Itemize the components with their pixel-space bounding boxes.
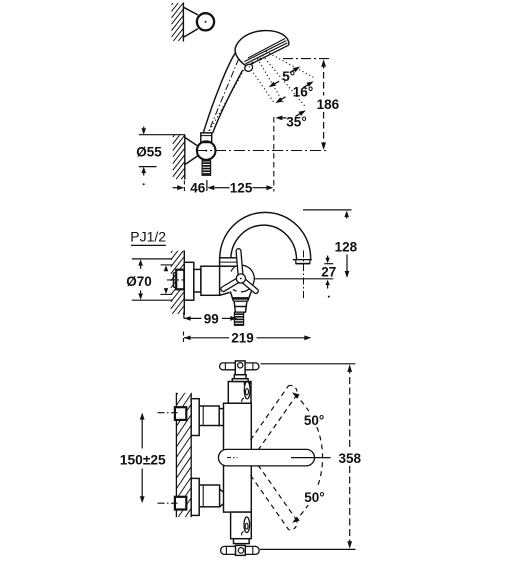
dim 150 line <box>141 415 143 449</box>
tee handle bottom bar <box>221 546 259 554</box>
wall line (bracket top view) <box>182 3 184 42</box>
tee handle top bar <box>220 363 259 370</box>
svg-text:99: 99 <box>204 311 219 326</box>
supply hex nut <box>176 270 184 290</box>
lower cone <box>234 301 247 312</box>
cartridge bottom <box>231 512 252 539</box>
spray ray 1 (5deg leg) <box>266 51 314 77</box>
union cylinder <box>194 269 201 292</box>
handle inner edge <box>213 70 243 133</box>
svg-text:16°: 16° <box>293 85 313 100</box>
swivel spout dashed down <box>251 475 289 529</box>
holder circle side view <box>197 141 216 160</box>
dia70 inner bottom line <box>161 293 173 295</box>
supply hex bottom <box>175 497 186 510</box>
escutcheon bottom <box>191 478 199 515</box>
tee knob top <box>235 361 245 375</box>
arrow 150 top <box>140 413 145 420</box>
arrow 186 bottom <box>321 143 326 151</box>
svg-text:219: 219 <box>231 331 254 346</box>
svg-text:125: 125 <box>230 181 253 196</box>
wall line (holder side view) <box>184 135 186 180</box>
arc arrow 5deg upper <box>293 67 300 73</box>
dim dia70 bottom line <box>132 299 172 301</box>
arrow 186 top <box>321 59 326 66</box>
arrow dia70 top <box>138 259 143 266</box>
arrow 150 bottom <box>140 496 145 503</box>
ext line spout top <box>303 209 352 211</box>
dim 219 right <box>257 337 306 339</box>
bracket cone top view <box>183 7 198 37</box>
supply centerline <box>167 279 198 281</box>
dim line 186 <box>323 62 325 96</box>
arrow 358 top <box>347 364 352 372</box>
supply cl bottom <box>158 502 178 504</box>
spout outer arc <box>220 212 311 258</box>
rotation arrow bottom <box>292 517 300 523</box>
dim 99 right <box>222 317 231 319</box>
svg-text:128: 128 <box>335 239 358 254</box>
arrow dia70 top inner <box>164 265 168 271</box>
handle hub <box>236 274 245 283</box>
svg-text:PJ1/2: PJ1/2 <box>130 229 166 245</box>
wall flange (middle) <box>184 262 194 300</box>
dim 99 <box>183 312 185 319</box>
handle centerline <box>208 59 239 134</box>
arrow dia70 bottom inner <box>164 288 168 294</box>
spray ray 3 (35deg leg) <box>249 66 275 103</box>
dot below dia55 <box>143 183 145 185</box>
hang hook knob <box>243 63 253 73</box>
handle clamp <box>201 133 212 143</box>
spray ray 2 (16deg leg) <box>262 55 305 107</box>
union nut bottom <box>199 485 219 507</box>
bracket lines side view <box>185 137 198 164</box>
supply pipe <box>174 273 185 288</box>
wall right line (bottom) <box>190 393 192 517</box>
label 50 bottom <box>303 490 328 505</box>
dim line dia55 bottom <box>139 166 157 168</box>
label 358 <box>337 451 364 465</box>
handle outer edge <box>203 53 235 134</box>
valve centerline <box>254 278 333 280</box>
svg-text:50°: 50° <box>304 490 324 505</box>
supply cl top <box>158 412 178 414</box>
dim 125 right <box>253 187 269 189</box>
rotation arc <box>294 394 308 411</box>
dim line 358 <box>349 367 351 451</box>
inlet elbow bottom <box>220 489 228 507</box>
outlet thread <box>234 312 243 325</box>
ext line 358 top <box>261 363 356 365</box>
dim 128 line <box>346 255 348 272</box>
arc arrow 16deg upper <box>306 81 313 87</box>
tee knob bottom <box>236 545 246 555</box>
shower head spray face <box>247 45 289 66</box>
svg-text:46: 46 <box>190 181 206 196</box>
escutcheon top <box>191 399 199 436</box>
cartridge detail bottom <box>244 517 250 533</box>
dim 27 top tick <box>327 256 329 260</box>
flange top <box>232 379 248 382</box>
svg-text:50°: 50° <box>304 413 324 428</box>
dim dia70 top line <box>132 258 172 260</box>
spout base box <box>220 258 241 266</box>
arrow 358 bottom <box>347 541 352 549</box>
supply hex top <box>175 407 186 420</box>
shower head dome <box>235 31 289 67</box>
lower bell <box>230 291 251 301</box>
housing detail top <box>244 382 250 399</box>
rotation arrow top <box>292 392 300 398</box>
arc arrow 35deg upper <box>299 110 306 116</box>
svg-text:35°: 35° <box>286 115 306 130</box>
hose cone <box>202 160 210 162</box>
svg-text:358: 358 <box>339 451 362 466</box>
valve body (middle) <box>201 266 220 295</box>
label 219 <box>230 331 255 344</box>
spray ray 3b <box>258 59 284 104</box>
spout outlet <box>293 258 312 260</box>
spout inner arc <box>231 225 297 258</box>
arc arrow 5deg lower <box>269 82 276 88</box>
holder centerline <box>196 150 328 152</box>
bracket circle top view <box>197 13 214 30</box>
arrow dia70 bottom <box>138 293 143 300</box>
cartridge housing top <box>228 382 251 404</box>
dot 27 <box>328 296 330 298</box>
svg-text:150±25: 150±25 <box>120 453 166 468</box>
arrow 35deg tick <box>275 116 282 121</box>
stem top <box>234 375 246 379</box>
arrow dia55 bottom <box>141 167 146 174</box>
arrow 27 bottom <box>325 280 329 286</box>
svg-text:Ø55: Ø55 <box>136 144 162 159</box>
hose connector ribs <box>202 161 211 175</box>
inlet piece top <box>219 409 223 426</box>
arrow 128 top <box>344 211 349 218</box>
spout cl left <box>227 457 238 459</box>
wall hatch (middle) <box>171 251 173 253</box>
tick holder cl <box>206 180 208 191</box>
front block <box>220 266 230 295</box>
ext line 358 bottom <box>260 548 356 550</box>
label 50 top <box>302 412 327 427</box>
svg-text:27: 27 <box>321 265 336 280</box>
arrow 128 bottom <box>345 271 350 278</box>
handle spokes <box>236 249 243 276</box>
label 186 <box>315 97 341 110</box>
handle bell circle <box>241 265 254 292</box>
arc arrow 16deg lower <box>275 98 282 104</box>
wall hatch (bottom) <box>176 393 177 395</box>
flange bottom <box>234 539 250 544</box>
svg-text:5°: 5° <box>282 69 295 84</box>
spout capsule <box>218 449 314 466</box>
dim 219 left <box>184 336 191 341</box>
svg-text:186: 186 <box>317 97 340 112</box>
wall ext dash <box>183 181 185 193</box>
spray ray 4 (handle-parallel leg) <box>209 70 245 133</box>
svg-text:Ø70: Ø70 <box>126 274 152 289</box>
dim 46 left <box>173 187 180 189</box>
outlet centerline <box>303 251 305 300</box>
ext dash line 35/125 <box>273 117 275 192</box>
thermostat body <box>224 403 252 512</box>
swivel spout dashed up <box>251 386 289 440</box>
arrow dia55 top <box>141 128 146 135</box>
dim line dia55 top <box>139 134 185 136</box>
dim 125 line <box>207 185 214 190</box>
union nut top <box>199 406 219 426</box>
spout cl right <box>291 457 331 459</box>
ext dash 219 left <box>183 332 185 344</box>
wall line (middle) <box>183 250 185 314</box>
ext line head top <box>283 58 331 60</box>
dia70 inner top line <box>161 264 173 266</box>
wall left line (bottom) <box>175 393 177 517</box>
wall hatch (bracket top view) <box>172 3 174 5</box>
wall hatch (holder side view) <box>173 135 175 137</box>
